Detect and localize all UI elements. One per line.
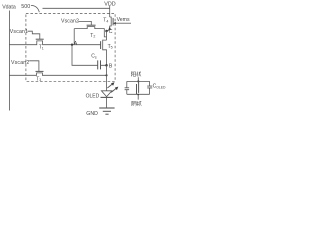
wire T2 left branch down to node A (73, 29, 75, 45)
svg-text:Vems: Vems (117, 17, 130, 23)
svg-text:Cs: Cs (91, 54, 97, 60)
wire node C down (106, 31, 108, 40)
node B (105, 64, 108, 67)
inset middle bars (OLED element) (136, 84, 138, 94)
svg-text:T3: T3 (36, 76, 41, 82)
svg-text:T4: T4 (103, 18, 108, 24)
svg-text:COLED: COLED (153, 84, 166, 90)
transistor T5 (102, 40, 104, 51)
inset cathode stub (137, 94, 139, 99)
svg-text:Vscan2: Vscan2 (11, 60, 29, 66)
svg-text:A: A (74, 41, 78, 47)
svg-text:Vscan1: Vscan1 (10, 29, 28, 35)
capacitor C_OLED (149, 81, 151, 94)
wire Vscan2 to T3 gate (29, 61, 39, 72)
svg-text:Vscan2: Vscan2 (61, 18, 79, 24)
svg-text:Vdata: Vdata (2, 5, 16, 11)
transistor T3 (36, 70, 44, 72)
transistor T4 (107, 17, 112, 31)
svg-text:500: 500 (21, 4, 30, 10)
emission arrow 1 (107, 84, 112, 88)
svg-text:GND: GND (86, 111, 98, 117)
label anode (CJK) (131, 72, 141, 77)
wire node B down to OLED (106, 65, 108, 91)
svg-text:C: C (109, 29, 113, 35)
inset left branch with plates (126, 81, 128, 94)
svg-text:T2: T2 (90, 33, 95, 39)
label cathode (CJK) (132, 101, 142, 106)
svg-text:T5: T5 (108, 44, 113, 50)
wire Vdata vertical bus (8, 11, 10, 111)
wire VDD rail (43, 7, 110, 9)
node A (71, 44, 73, 46)
inset top rail (127, 80, 150, 82)
dashed box (pixel circuit boundary) (26, 13, 115, 81)
node C (105, 30, 108, 33)
junction T3 wire to node B line (105, 74, 107, 76)
emission arrow 2 (111, 88, 116, 92)
wire Vscan1 to T1 gate (28, 31, 40, 39)
transistor T2 (87, 24, 96, 26)
OLED equivalent inset: anode stub (137, 77, 139, 81)
inset bottom rail (127, 93, 150, 95)
wire Vscan2 to T2 gate (78, 21, 91, 25)
svg-text:B: B (109, 64, 113, 70)
wire VDD drop to T4 (109, 6, 111, 17)
transistor T1 (36, 38, 44, 40)
leader curve from 500 to dashed box (31, 5, 39, 12)
svg-text:OLED: OLED (86, 93, 100, 99)
svg-text:T1: T1 (39, 45, 44, 51)
OLED diode (101, 91, 112, 97)
ground (99, 107, 114, 109)
